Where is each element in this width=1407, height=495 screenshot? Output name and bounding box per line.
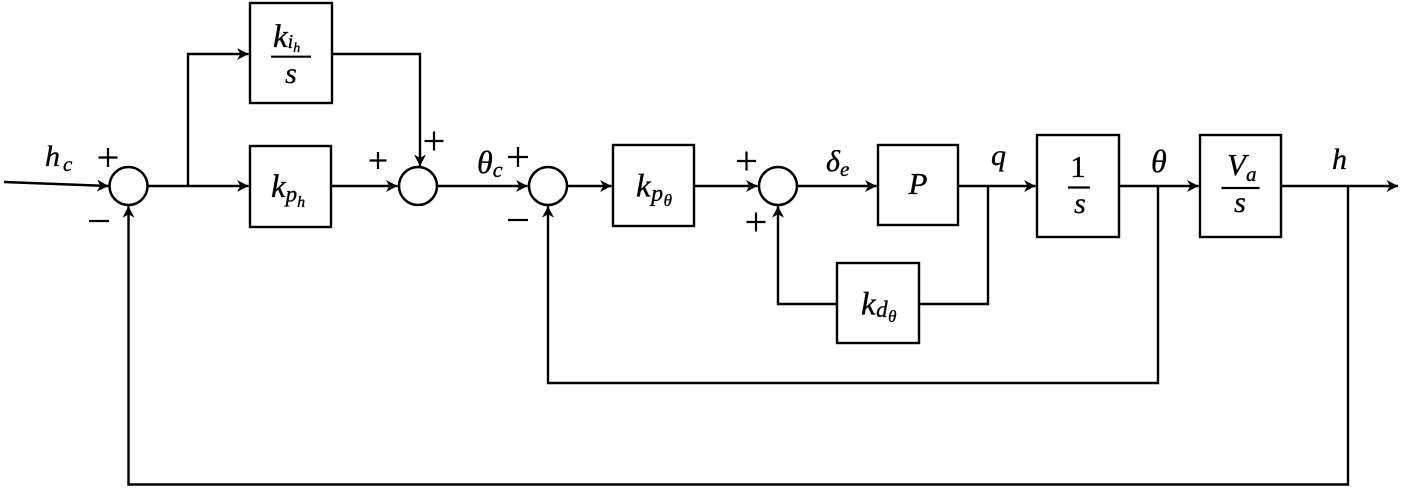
svg-text:θ: θ xyxy=(1151,143,1167,179)
svg-text:s: s xyxy=(1234,186,1246,219)
svg-text:1: 1 xyxy=(1070,149,1086,184)
svg-text:q: q xyxy=(991,139,1006,172)
svg-text:h: h xyxy=(1332,143,1347,176)
svg-text:s: s xyxy=(285,57,297,90)
svg-text:δe: δe xyxy=(826,145,849,181)
svg-text:hc: hc xyxy=(45,140,73,176)
svg-text:s: s xyxy=(1074,187,1086,220)
svg-text:P: P xyxy=(908,166,928,201)
svg-text:θc: θc xyxy=(477,144,503,182)
